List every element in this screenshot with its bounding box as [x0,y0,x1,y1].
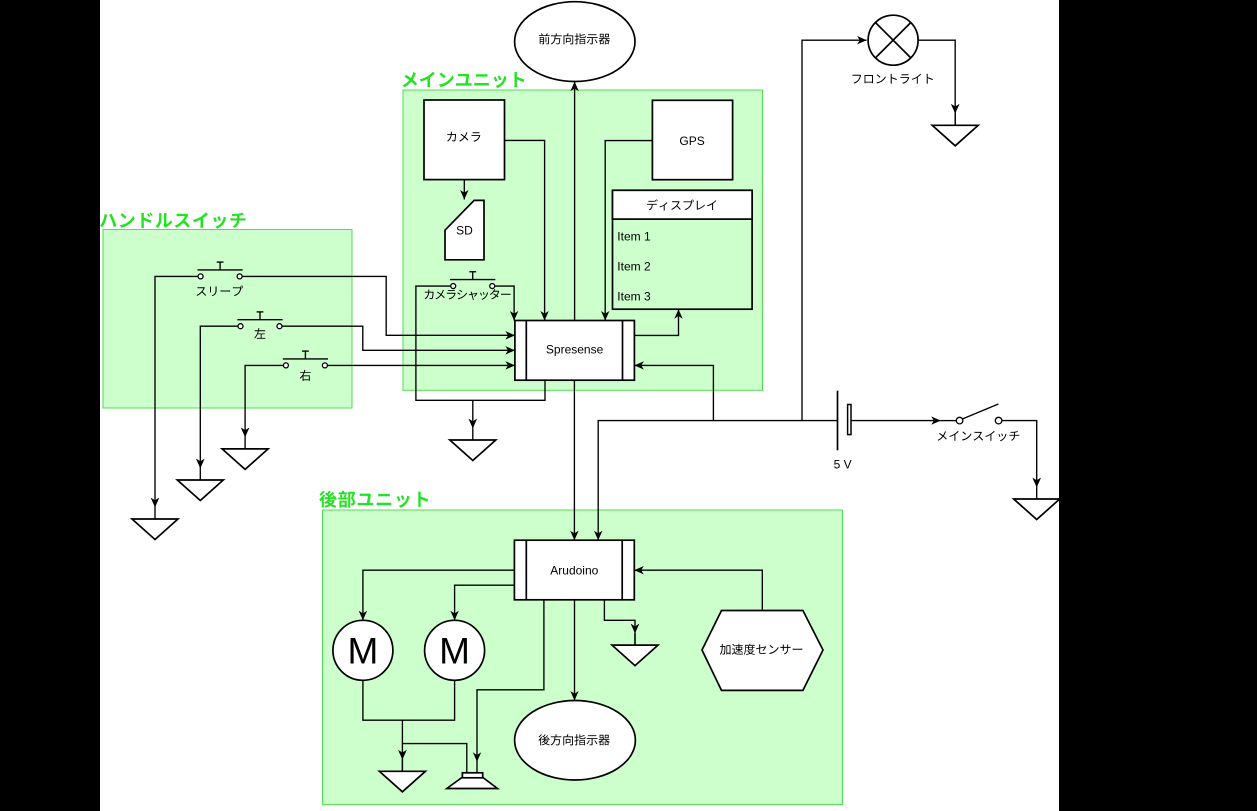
battery 5 V [838,391,852,451]
push-button switch 右 [283,351,328,368]
right black letterbox band [1059,0,1257,811]
wire スリープ right to Spresense pin1 [242,276,515,335]
wire 右 left to ground [245,365,283,437]
box カメラ (camera) [424,100,505,180]
push-button switch カメラシャッター [450,272,495,289]
label 加速度センサー [720,644,803,655]
ground at 左 [177,459,223,501]
svg-text:GPS: GPS [679,134,704,148]
wire メインスイッチ to ground [1002,421,1037,488]
push-button switch スリープ [198,262,243,279]
wire node to フロントライト [802,40,867,420]
motor M1 [333,620,393,680]
wire Spresense to ディスプレイ [634,309,678,335]
ground at Arudoino [612,624,658,666]
ground below Spresense [450,419,496,461]
wire motors to ground [363,680,455,720]
ground at メインスイッチ [1014,478,1060,520]
label ハンドルスイッチ [100,212,246,228]
process box Spresense [515,321,635,381]
wire motor node to speaker [402,744,466,773]
label 後部ユニット [319,491,428,508]
push-button switch 左 [237,312,282,329]
wire branch to ground below Spresense [472,400,474,428]
ground at motors [379,750,425,792]
svg-text:Item 1: Item 1 [617,230,651,244]
hexagon 加速度センサー (accel sensor) [702,611,823,691]
wire Arudoino to 後方向指示器 [574,600,576,701]
left black letterbox band [0,0,100,811]
wire GPS to Spresense top [605,141,652,321]
label メインスイッチ [938,431,1020,441]
box GPS [652,100,732,179]
wire 加速度センサー to Arudoino [634,570,762,610]
label カメラ [447,132,480,142]
wire カメラシャッター right to Spresense top [494,286,514,320]
wire Arudoino to ground [604,600,635,645]
label メインユニット [403,72,525,88]
wire 左 left to ground [200,326,238,468]
card SD [445,200,484,259]
wire Arudoino to motor M2 [455,585,515,620]
svg-text:5 V: 5 V [834,457,852,471]
wire 右 right to Spresense pin3 [327,364,515,366]
label ディスプレイ [647,199,716,210]
wire スリープ left to ground [155,276,198,507]
wire battery to メインスイッチ [851,420,941,422]
svg-text:SD: SD [456,223,473,237]
ground at フロントライト [932,104,978,146]
svg-text:Spresense: Spresense [546,342,604,356]
wire カメラシャッター left to Spresense bottom [416,286,545,400]
label 右 [300,370,311,381]
svg-text:Item 2: Item 2 [617,259,651,273]
label 前方向指示器 [539,33,610,44]
process box Arudoino [514,540,634,600]
wire Spresense to Arudoino [573,380,575,540]
ground at 右 [222,428,268,470]
wire Spresense to 前方向指示器 [574,82,576,321]
ellipse 後方向指示器 (rear indicator) [515,701,636,781]
wire Arudoino to motor M1 [363,570,515,620]
group container メインユニット (main unit) [403,90,763,390]
label 後方向指示器 [538,734,609,745]
wire node to Spresense right pin [634,365,713,420]
toggle switch メインスイッチ (main switch) [941,404,1002,424]
ground at スリープ [132,498,178,540]
label フロントライト [852,74,933,84]
svg-text:Arudoino: Arudoino [550,564,598,578]
svg-text:M: M [347,630,378,671]
wire 左 right to Spresense pin2 [282,326,515,350]
wire カメラ to Spresense top [505,140,545,320]
list ディスプレイ (display) [613,190,753,309]
motor M2 [425,620,485,680]
svg-text:M: M [439,630,470,671]
speaker [447,773,498,789]
label 左 [254,328,265,339]
wire battery to Arudoino [598,421,837,541]
svg-text:Item 3: Item 3 [617,290,651,304]
ellipse 前方向指示器 (front indicator) [515,2,635,82]
label カメラシャッター [425,289,511,300]
lamp フロントライト (front light) [868,15,918,65]
label スリープ [197,286,244,297]
group container ハンドルスイッチ (handle switch) [103,230,352,409]
arrow カメラ to SD [463,180,465,200]
wire フロントライト to ground [918,40,955,125]
wire Arudoino to speaker [477,600,544,773]
group container 後部ユニット (rear unit) [323,510,843,805]
